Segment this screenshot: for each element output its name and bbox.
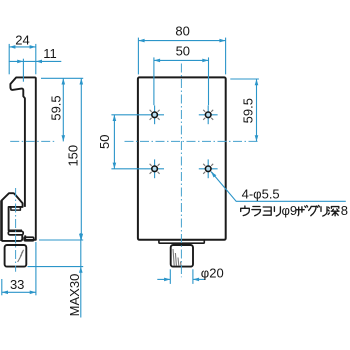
- dimension 80: [138, 23, 225, 74]
- side view knob: [5, 245, 27, 267]
- dimension 150: [39, 78, 83, 240]
- note text ura-yori phi9 zaguri depth 8: [241, 203, 348, 218]
- front view washer plate: [159, 240, 204, 243]
- dimension phi20: [157, 266, 223, 284]
- hole top-left: [145, 105, 164, 124]
- svg-text:50: 50: [97, 135, 112, 149]
- dimension 59.5 right: [230, 79, 259, 141]
- vertical centerline front view: [180, 64, 182, 278]
- front view knob hatch: [173, 249, 181, 266]
- svg-text:8: 8: [341, 203, 348, 218]
- svg-text:80: 80: [175, 23, 189, 38]
- dimension 11: [9, 46, 61, 82]
- svg-text:4-φ5.5: 4-φ5.5: [242, 186, 280, 201]
- svg-text:11: 11: [43, 46, 57, 61]
- svg-text:MAX30: MAX30: [67, 274, 82, 317]
- side view hook inner profile: [10, 87, 25, 207]
- dimension MAX30: [28, 233, 84, 318]
- katakana ri: [274, 207, 280, 216]
- katakana za: [296, 206, 307, 216]
- svg-text:φ20: φ20: [201, 266, 224, 281]
- side view clamp block outline: [2, 193, 23, 241]
- dimension 33: [2, 242, 36, 295]
- dimension 59.5 left: [41, 78, 83, 141]
- horizontal centerline: [10, 140, 258, 142]
- svg-text:59.5: 59.5: [48, 95, 63, 120]
- front view plate rectangle: [138, 77, 226, 239]
- katakana ra: [252, 207, 261, 216]
- svg-text:33: 33: [10, 277, 24, 292]
- dimension 50 left: [97, 115, 145, 169]
- svg-text:59.5: 59.5: [240, 98, 255, 123]
- hole bottom-right: [199, 159, 218, 178]
- katakana u: [241, 206, 250, 216]
- side view plate outline: [10, 77, 35, 239]
- svg-text:50: 50: [176, 44, 190, 59]
- side view clamp jaw bottom: [2, 235, 23, 241]
- leader line 4-phi5.5: [210, 170, 346, 201]
- svg-text:24: 24: [15, 33, 29, 48]
- katakana yo: [263, 207, 271, 215]
- side view clamp jaw step: [11, 207, 21, 210]
- kanji fukai: [328, 207, 339, 216]
- katakana ri 2: [321, 207, 327, 216]
- dimension 50 top: [154, 44, 209, 106]
- side view clamp block thick left edge: [0, 201, 3, 241]
- hole top-right: [199, 105, 218, 124]
- svg-text:150: 150: [65, 145, 80, 167]
- side view washer block: [24, 237, 34, 241]
- vertical centerline clamp screw: [15, 188, 17, 272]
- hole bottom-left: [145, 159, 164, 178]
- katakana gu: [309, 206, 320, 216]
- side view clamp lip bar: [8, 231, 23, 235]
- front view knob: [171, 245, 193, 267]
- dimension 24: [9, 33, 36, 75]
- svg-text:φ9: φ9: [282, 203, 298, 218]
- side view knob hatch: [18, 250, 24, 262]
